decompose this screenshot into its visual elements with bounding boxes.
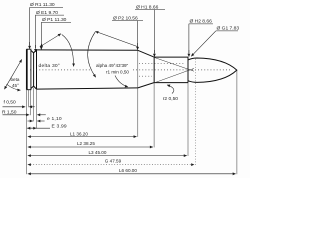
body top edge [36,49,137,51]
alpha arc [88,32,96,78]
hidden line in neck lower [139,75,152,77]
rim head face thick edge [26,49,28,89]
cone construction line bottom extended [156,68,194,82]
hidden line in neck upper [139,63,185,65]
extension lines below head [27,51,237,175]
centerline [30,64,232,76]
shoulder end vertical [153,57,155,83]
cone construction line top extended [154,58,194,72]
cartridge case outline [27,49,237,89]
svg-text:f 0,50: f 0,50 [4,100,17,106]
body bottom edge [36,88,137,89]
body start vertical [36,50,38,89]
svg-text:G 47.59: G 47.59 [105,158,122,163]
case mouth [187,57,189,83]
svg-text:E 3.99: E 3.99 [52,123,67,129]
svg-text:r2 0,50: r2 0,50 [163,96,179,102]
rim [27,49,31,89]
svg-text:L2 38.25: L2 38.25 [77,141,95,146]
svg-text:L3 45.00: L3 45.00 [89,150,107,155]
svg-text:alpha 49°43'39'': alpha 49°43'39'' [96,63,128,68]
dotted G extension [194,59,196,165]
extractor groove top bevel [31,50,37,53]
svg-text:Ø R1 11.30: Ø R1 11.30 [30,2,55,8]
svg-text:beta: beta [11,77,20,82]
svg-text:L6 60.00: L6 60.00 [119,168,137,173]
svg-text:r1 min 0,50: r1 min 0,50 [106,70,129,75]
svg-text:45°: 45° [12,83,19,88]
bullet ogive [188,58,237,82]
alpha cone line upper-left [95,31,137,46]
shoulder bottom [138,83,154,88]
neck top [154,56,188,58]
svg-text:delta 30°: delta 30° [39,63,61,69]
shoulder top [138,50,155,57]
svg-text:e 1,10: e 1,10 [47,116,62,122]
neck bottom [154,82,188,84]
svg-text:R 1,50: R 1,50 [2,109,17,115]
svg-text:L1 36.20: L1 36.20 [70,132,88,137]
extractor groove edge vertical [33,53,35,86]
extractor groove bottom bevel [31,86,37,89]
r1 leader [115,76,128,88]
